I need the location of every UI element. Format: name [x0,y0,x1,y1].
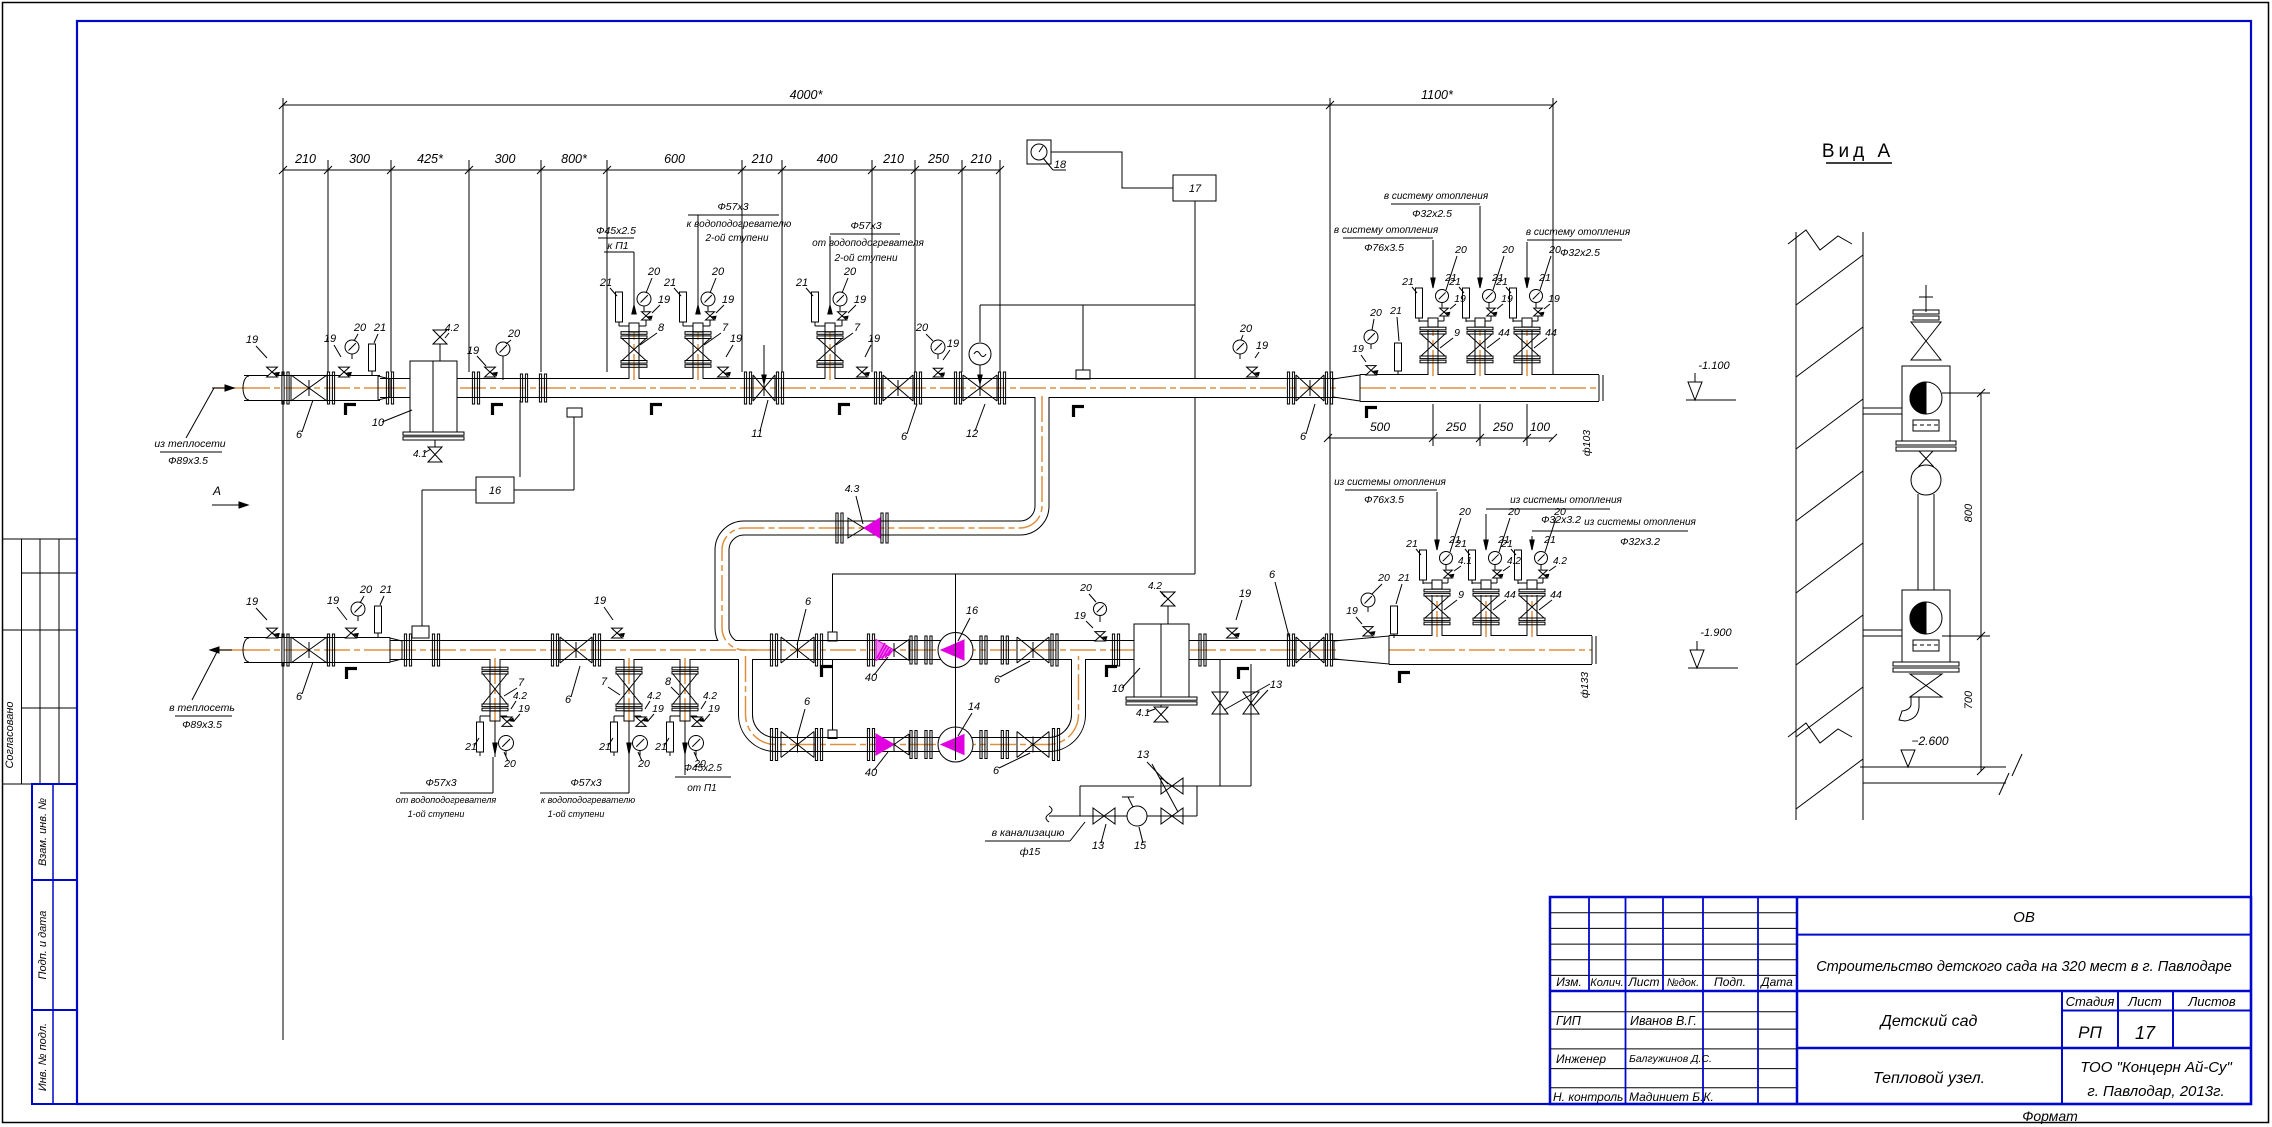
valve assembly 7 at x=698 [685,332,711,335]
svg-text:Ф57х3: Ф57х3 [425,777,456,789]
wire 18 to 17 [1051,152,1173,188]
svg-text:100: 100 [1530,420,1550,434]
flange [472,372,474,404]
svg-text:20: 20 [1454,244,1467,256]
svg-text:Ф89х3.5: Ф89х3.5 [168,455,208,467]
svg-text:20: 20 [503,758,516,770]
svg-text:19: 19 [327,595,339,607]
svg-text:Листов: Листов [2187,994,2236,1009]
bypass valve 13 kosoy [1161,778,1172,794]
mud filter 10 [410,361,457,432]
svg-text:19: 19 [722,294,734,306]
svg-text:от П1: от П1 [687,783,716,794]
svg-text:Взам. инв. №: Взам. инв. № [37,798,49,866]
svg-text:20: 20 [1079,582,1092,594]
svg-text:ОВ: ОВ [2013,909,2035,926]
flow sensor [412,626,429,638]
svg-text:500: 500 [1370,420,1390,434]
svg-text:Изм.: Изм. [1556,975,1582,989]
svg-text:21: 21 [1405,538,1418,550]
signal wire through pumps [955,574,957,760]
valve assembly 7 at x=830 [817,332,843,335]
svg-text:в канализацию: в канализацию [992,827,1065,839]
svg-text:19: 19 [868,333,880,345]
svg-text:7: 7 [722,322,729,334]
manometer 20 + valve 19 [931,340,945,354]
svg-text:13: 13 [1270,679,1283,691]
orifice flanges [520,374,522,402]
svg-text:4.2: 4.2 [647,691,661,702]
svg-text:-1.100: -1.100 [1698,360,1730,372]
reducer cones [378,376,390,400]
flow sensor [432,634,434,666]
svg-text:Ф32х2.5: Ф32х2.5 [1412,208,1452,220]
valve assembly 7 at x=495 [482,667,508,670]
svg-text:А: А [212,484,221,498]
svg-text:Строительство детского сада на: Строительство детского сада на 320 мест … [1816,959,2232,975]
svg-text:20: 20 [507,328,521,340]
svg-text:Ф45х2.5: Ф45х2.5 [596,225,636,237]
svg-text:21: 21 [599,277,612,289]
svg-text:21: 21 [1397,572,1410,584]
svg-text:21: 21 [373,322,386,334]
svg-text:Ф57х3: Ф57х3 [570,777,601,789]
svg-text:6: 6 [804,696,811,708]
svg-text:Н. контроль: Н. контроль [1553,1090,1623,1104]
sensor box 18 [1027,140,1051,164]
svg-text:20: 20 [1501,244,1514,256]
svg-text:Инженер: Инженер [1556,1052,1606,1066]
svg-text:Ф32х3.2: Ф32х3.2 [1541,514,1581,526]
dimension line 1100 [1330,104,1553,106]
manometer 20 [351,602,365,616]
svg-text:18: 18 [1054,159,1067,171]
svg-text:19: 19 [1454,293,1466,305]
svg-text:19: 19 [1256,340,1268,352]
svg-text:19: 19 [730,333,742,345]
flange [404,634,406,666]
svg-text:в систему отопления: в систему отопления [1384,191,1489,202]
svg-text:6: 6 [994,674,1001,686]
floor line [1863,782,2006,784]
svg-text:14: 14 [968,701,980,713]
svg-text:19: 19 [467,345,479,357]
signal wire bus [1194,201,1196,574]
branch gate valve 6 [1017,732,1049,758]
svg-text:9: 9 [1454,327,1460,339]
svg-text:20: 20 [1239,323,1253,335]
svg-text:15: 15 [1134,840,1147,852]
return riser label 2 [1485,514,1487,540]
svg-text:12: 12 [966,428,978,440]
svg-text:44: 44 [1545,327,1557,339]
svg-text:210: 210 [751,152,773,166]
svg-text:13: 13 [1137,749,1150,761]
svg-text:к П1: к П1 [607,240,628,252]
svg-text:Ф57х3: Ф57х3 [717,201,748,213]
svg-text:21: 21 [464,741,477,753]
svg-text:из теплосети: из теплосети [154,438,225,450]
gate valve 6 [1287,372,1289,404]
riser valve 9 at x=1433 [1420,327,1446,330]
outlet arrow v teploset [210,649,232,651]
return riser valve 44 at x=1486 [1473,589,1499,592]
svg-text:20: 20 [1377,572,1390,584]
svg-text:9: 9 [1458,589,1464,601]
elevator device upper [1902,366,1950,441]
branch control valve 40 magenta [867,729,869,761]
drain header [1080,785,1251,787]
dimension line 4000 [283,104,1330,106]
svg-text:№док.: №док. [1667,977,1699,989]
svg-text:Подп.: Подп. [1714,975,1746,989]
svg-text:44: 44 [1504,589,1516,601]
svg-text:8: 8 [665,676,672,688]
svg-text:21: 21 [1538,272,1551,284]
valve assembly 7 at x=629 [616,667,642,670]
elevator device lower [1902,590,1950,662]
svg-text:44: 44 [1498,327,1510,339]
svg-text:21: 21 [663,277,676,289]
svg-text:19: 19 [1548,293,1560,305]
svg-text:4.2: 4.2 [1553,556,1567,567]
flange pair [910,636,912,664]
svg-text:4.1: 4.1 [1136,708,1150,719]
svg-text:19: 19 [854,294,866,306]
motor valve 12 [954,372,956,404]
supply riser label 3 [1526,242,1528,278]
thermometer 21 [375,606,382,633]
support bracket upper [1863,407,1902,409]
svg-text:44: 44 [1550,589,1562,601]
svg-text:250: 250 [1445,420,1466,434]
bypass valve 4.3 magenta [836,513,838,543]
dimension row 210/300/425/300/800/600/210/400/210/250/210 [283,169,1000,171]
riser pipe [1917,494,1919,590]
svg-text:19: 19 [246,596,258,608]
wall break top [1788,230,1852,250]
svg-text:от водоподогревателя: от водоподогревателя [396,795,497,805]
return label F57x3 k vodopodogrevatelyu 1st [628,757,630,793]
svg-text:210: 210 [882,152,904,166]
svg-text:из системы отопления: из системы отопления [1334,477,1446,488]
svg-text:400: 400 [817,152,838,166]
vertical pipe assembly [1925,285,1927,312]
svg-text:-1.900: -1.900 [1700,627,1732,639]
box Podp i data [32,880,77,1010]
svg-text:20: 20 [711,266,725,278]
svg-text:6: 6 [993,765,1000,777]
return label F57x3 ot vodopodogrevatelya 1st [492,757,494,793]
svg-text:800*: 800* [561,152,588,166]
svg-text:1-ой ступени: 1-ой ступени [548,809,605,819]
svg-text:10: 10 [1112,683,1125,695]
manometer 20 + valve 19 [1233,340,1247,354]
title block [1550,897,2251,1104]
svg-text:к водоподогревателю: к водоподогревателю [687,219,792,230]
drain valve 19 valve [350,628,352,638]
svg-text:Ф45х2.5: Ф45х2.5 [684,763,722,774]
wall section [1795,232,1797,820]
branch label F57x3 ot vodopodogrevatelya 2 st [829,236,831,295]
pump 16 [938,633,973,668]
svg-text:21: 21 [1543,534,1556,546]
gate valve 6 [1017,637,1049,663]
gate valve 6 [291,375,327,401]
svg-text:210: 210 [294,152,316,166]
svg-text:2-ой ступени: 2-ой ступени [704,233,768,244]
svg-text:21: 21 [1495,276,1508,288]
corner marks [344,403,356,406]
return riser valve 44 at x=1532 [1519,589,1545,592]
box Inv N podl [32,1010,77,1104]
manifold instruments lower [1361,593,1375,607]
valve 4.2 [439,344,441,361]
svg-text:19: 19 [1501,293,1513,305]
svg-text:6: 6 [1269,569,1276,581]
water meter 15 [1127,806,1147,826]
svg-text:700: 700 [1963,690,1975,709]
svg-text:20: 20 [915,322,929,334]
svg-text:10: 10 [372,417,385,429]
return riser label 3 [1531,536,1533,540]
branch label F57x3 k vodopodogrevatelyu 2 st [697,215,699,295]
pump 14 [938,727,973,762]
svg-text:Колич.: Колич. [1590,977,1623,989]
svg-text:19: 19 [246,334,258,346]
pipe break mark [1046,806,1052,822]
svg-text:21: 21 [379,584,392,596]
svg-text:20: 20 [647,266,661,278]
svg-text:к водоподогревателю: к водоподогревателю [541,795,635,805]
svg-text:210: 210 [970,152,992,166]
drain valve 19 [489,367,491,377]
flange [1199,634,1201,666]
svg-text:Согласовано: Согласовано [4,701,16,768]
riser valve 44 at x=1527 [1514,327,1540,330]
valve assembly 8 at x=634 [621,332,647,335]
svg-text:19: 19 [1074,610,1086,622]
svg-text:Ф32х2.5: Ф32х2.5 [1560,247,1600,259]
svg-text:17: 17 [2135,1023,2156,1043]
svg-text:4000*: 4000* [790,88,824,102]
svg-text:20: 20 [1458,506,1471,518]
drain valve 19 [271,367,273,377]
manometer 20 [345,340,359,354]
svg-text:Иванов В.Г.: Иванов В.Г. [1630,1014,1697,1028]
svg-text:800: 800 [1963,503,1975,522]
svg-text:7: 7 [518,677,525,689]
svg-text:40: 40 [865,672,878,684]
drain valve 13 [1093,808,1104,824]
inlet arrow iz teploseti [212,387,234,389]
svg-text:4.3: 4.3 [845,483,860,495]
svg-text:11: 11 [751,428,762,440]
svg-text:20: 20 [1507,506,1520,518]
svg-text:19: 19 [1346,605,1358,617]
pump line left valve 6 [770,634,772,666]
return riser valve 9 at x=1437 [1424,589,1450,592]
flange pair [980,636,982,664]
gate valve 6 [874,372,876,404]
flange [1112,634,1114,666]
svg-text:7: 7 [601,676,608,688]
svg-text:Ф76х3.5: Ф76х3.5 [1364,242,1404,254]
svg-text:6: 6 [805,596,812,608]
heat-meter box 16 [476,477,514,503]
svg-text:РП: РП [2078,1023,2102,1042]
svg-text:4.1: 4.1 [1458,556,1472,567]
svg-text:1-ой ступени: 1-ой ступени [408,809,465,819]
svg-text:250: 250 [1492,420,1513,434]
svg-text:13: 13 [1092,840,1105,852]
svg-text:Вид А: Вид А [1822,141,1894,162]
svg-text:19: 19 [947,338,959,350]
svg-text:20: 20 [1548,244,1561,256]
svg-text:20: 20 [1369,307,1382,319]
branch flange [770,729,772,761]
svg-text:20: 20 [637,758,650,770]
svg-text:ф133: ф133 [1579,672,1591,698]
support bracket lower [1863,629,1902,631]
drain valve 19 [861,367,863,377]
return riser label 1 [1436,492,1438,540]
dimension extension lines [282,98,284,1040]
svg-text:4.1: 4.1 [413,449,427,460]
svg-text:ТОО "Концерн Ай-Су": ТОО "Концерн Ай-Су" [2080,1059,2232,1076]
thermometer 21 [369,344,376,371]
svg-text:Детский сад: Детский сад [1879,1013,1978,1030]
svg-text:в систему отопления: в систему отопления [1334,225,1439,236]
svg-text:19: 19 [652,703,664,715]
sensor pocket [1076,370,1090,379]
svg-text:−2.600: −2.600 [1911,734,1948,748]
svg-text:16: 16 [966,605,979,617]
svg-text:7: 7 [854,322,861,334]
flange [282,634,284,666]
return label F45x2.5 ot P1 [684,757,686,775]
svg-text:Инв. № подл.: Инв. № подл. [37,1023,49,1091]
flange [282,372,284,404]
drain valve 19 [616,628,618,638]
svg-text:19: 19 [658,294,670,306]
mud filter 10 lower [1134,624,1189,697]
svg-text:Подп. и дата: Подп. и дата [37,911,49,980]
dim 800/700 [1980,393,1982,771]
control valve 40 magenta hatched [867,634,869,666]
wall break bottom [1788,723,1852,743]
svg-text:Ф32х3.2: Ф32х3.2 [1620,536,1660,548]
svg-text:300: 300 [495,152,516,166]
svg-text:8: 8 [658,322,665,334]
svg-text:17: 17 [1189,183,1202,195]
svg-text:Ф57х3: Ф57х3 [850,220,881,232]
pipe open end caps [243,376,249,400]
manifold instruments [1364,330,1378,344]
svg-text:21: 21 [795,277,808,289]
svg-text:21: 21 [654,741,667,753]
svg-text:из системы отопления: из системы отопления [1584,517,1696,528]
drain valve 4.1 [434,440,436,447]
svg-text:Мадиниет Б.К.: Мадиниет Б.К. [1629,1090,1714,1104]
svg-text:Балгужинов Д.С.: Балгужинов Д.С. [1629,1053,1712,1065]
sensor pocket [828,632,837,641]
sensor pocket [567,408,582,417]
flange [327,372,329,404]
valve assembly 8 at x=685 [672,667,698,670]
supply riser label 2 [1479,206,1481,278]
supply riser label 1 [1432,240,1434,278]
svg-text:в систему отопления: в систему отопления [1526,227,1631,238]
svg-text:19: 19 [1239,588,1251,600]
manometer 20 + valve 19 [1094,603,1107,616]
riser valve 44 at x=1480 [1467,327,1493,330]
manometer 20 [496,342,510,356]
flange [386,372,388,404]
svg-text:19: 19 [1352,343,1364,355]
svg-text:21: 21 [1454,538,1467,550]
svg-text:600: 600 [664,152,685,166]
svg-text:от водоподогревателя: от водоподогревателя [812,238,924,249]
svg-text:425*: 425* [417,152,444,166]
svg-text:Ф76х3.5: Ф76х3.5 [1364,494,1404,506]
svg-text:ф103: ф103 [1581,430,1593,456]
svg-text:4.2: 4.2 [1148,581,1162,592]
svg-text:19: 19 [708,703,720,715]
svg-text:Лист: Лист [1628,975,1660,989]
svg-text:1100*: 1100* [1421,88,1454,102]
svg-text:40: 40 [865,767,878,779]
svg-text:300: 300 [349,152,370,166]
svg-text:4.2: 4.2 [513,691,527,702]
left stamp column (Soglasovano table) [3,538,77,540]
pipe centerlines [244,387,380,389]
svg-text:21: 21 [598,741,611,753]
drain valve 13 kosoy [1161,808,1172,824]
gate valve 6 [291,637,327,663]
branch gate valve 6 [781,732,814,758]
svg-text:21: 21 [1401,276,1414,288]
svg-text:16: 16 [489,485,502,497]
svg-text:в теплосеть: в теплосеть [169,702,235,714]
svg-text:21: 21 [1500,538,1513,550]
outlet elbow [1899,697,1919,721]
svg-text:г. Павлодар, 2013г.: г. Павлодар, 2013г. [2087,1083,2224,1100]
gate valve 6 [1287,634,1289,666]
svg-text:21: 21 [1389,305,1402,317]
svg-text:Стадия: Стадия [2066,994,2115,1009]
svg-text:19: 19 [594,595,606,607]
svg-text:Формат: Формат [2022,1108,2078,1124]
pipe walls [244,375,380,401]
box Vzam inv N [32,784,77,880]
svg-text:ф15: ф15 [1020,846,1041,858]
svg-text:20: 20 [359,584,373,596]
branch label F45x2.5 k P1 [633,252,635,295]
svg-text:19: 19 [518,703,530,715]
drain valve 19 [343,367,345,377]
svg-text:ГИП: ГИП [1556,1014,1582,1028]
svg-text:из системы отопления: из системы отопления [1510,495,1622,506]
svg-text:Дата: Дата [1759,975,1793,989]
svg-text:20: 20 [843,266,857,278]
drain riser pipes 13 [1219,659,1221,786]
drain valve 19 [271,628,273,638]
svg-text:4.2: 4.2 [445,323,459,334]
svg-text:4.2: 4.2 [703,691,717,702]
drain valve 19 [722,367,724,377]
svg-text:250: 250 [927,152,949,166]
